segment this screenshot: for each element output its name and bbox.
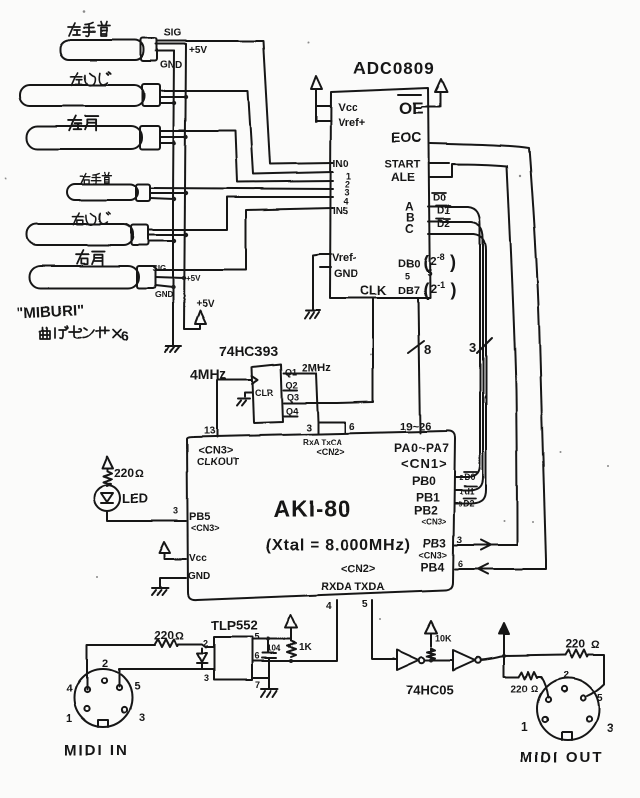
svg-text:2: 2 — [563, 670, 569, 681]
svg-text:74HC05: 74HC05 — [406, 682, 454, 697]
svg-text:Ω: Ω — [135, 468, 144, 480]
svg-text:SIG: SIG — [152, 264, 166, 273]
svg-text:TLP552: TLP552 — [211, 618, 257, 633]
svg-text:1: 1 — [521, 720, 528, 734]
svg-text:3: 3 — [139, 712, 145, 724]
svg-text:DB0: DB0 — [398, 258, 420, 270]
svg-text:3: 3 — [173, 506, 178, 516]
svg-text:CLK: CLK — [360, 283, 387, 298]
svg-text:7: 7 — [255, 680, 260, 690]
svg-text:19~26: 19~26 — [400, 421, 431, 433]
svg-text:Vcc: Vcc — [338, 102, 358, 114]
svg-text:2: 2 — [459, 475, 463, 482]
svg-text:D0: D0 — [464, 472, 476, 482]
svg-text:5: 5 — [597, 693, 603, 704]
svg-text:4: 4 — [66, 683, 73, 695]
svg-text:<CN3>: <CN3> — [198, 445, 233, 457]
svg-text:220: 220 — [154, 628, 174, 642]
svg-text:START: START — [384, 158, 420, 170]
svg-text:PB3: PB3 — [423, 536, 447, 550]
svg-text:Q1: Q1 — [285, 367, 297, 377]
svg-text:4MHz: 4MHz — [190, 366, 227, 382]
svg-text:4: 4 — [344, 196, 349, 206]
svg-text:220: 220 — [565, 637, 585, 651]
svg-text:(Xtal = 8.000MHz): (Xtal = 8.000MHz) — [266, 537, 411, 554]
svg-text:Vcc: Vcc — [189, 553, 207, 564]
svg-text:104: 104 — [267, 644, 281, 653]
svg-text:Vref+: Vref+ — [338, 117, 365, 129]
svg-text:PB5: PB5 — [189, 511, 210, 523]
svg-text:<CN1>: <CN1> — [401, 456, 447, 471]
svg-text:MIDI IN: MIDI IN — [64, 742, 129, 759]
svg-text:13: 13 — [204, 426, 216, 437]
svg-text:5: 5 — [362, 599, 368, 610]
svg-text:Ω: Ω — [175, 630, 184, 642]
svg-text:PA0~PA7: PA0~PA7 — [394, 441, 449, 455]
svg-text:<CN2>: <CN2> — [316, 447, 345, 457]
svg-text:SIG: SIG — [164, 28, 181, 39]
svg-text:5: 5 — [134, 681, 140, 693]
svg-text:4: 4 — [326, 601, 332, 612]
svg-text:PB4: PB4 — [421, 560, 445, 574]
svg-text:CLKOUT: CLKOUT — [197, 457, 239, 468]
svg-text:Vref-: Vref- — [332, 252, 357, 264]
svg-text:3: 3 — [469, 340, 476, 355]
svg-text:GND: GND — [334, 268, 359, 280]
svg-text:C: C — [405, 222, 414, 236]
svg-text:PB0: PB0 — [412, 474, 436, 488]
svg-text:+5V: +5V — [189, 45, 207, 56]
svg-text:<CN3>: <CN3> — [191, 523, 220, 533]
svg-text:IN5: IN5 — [333, 206, 349, 217]
svg-text:d1: d1 — [464, 486, 475, 496]
svg-text:AKI-80: AKI-80 — [273, 496, 352, 522]
svg-text:Ω: Ω — [591, 639, 600, 651]
svg-text:3: 3 — [306, 423, 312, 434]
svg-text:GND: GND — [188, 571, 210, 582]
svg-text:220: 220 — [114, 466, 134, 480]
svg-text:1: 1 — [66, 713, 72, 725]
svg-text:): ) — [450, 280, 456, 300]
svg-text:3: 3 — [607, 721, 614, 735]
svg-text:10K: 10K — [435, 633, 452, 643]
svg-text:PB1: PB1 — [416, 490, 440, 504]
svg-text:2MHz: 2MHz — [302, 362, 331, 374]
svg-text:OE: OE — [399, 99, 424, 118]
svg-text:RXDA TXDA: RXDA TXDA — [321, 581, 385, 593]
svg-text:D0: D0 — [433, 193, 446, 204]
svg-text:ALE: ALE — [391, 170, 415, 184]
svg-text:6: 6 — [349, 422, 355, 433]
svg-text:<CN3>: <CN3> — [419, 550, 448, 560]
svg-text:Ω: Ω — [531, 684, 538, 694]
svg-text:6: 6 — [458, 559, 463, 569]
svg-text:"MIBURI": "MIBURI" — [16, 301, 84, 322]
svg-text:GND: GND — [155, 290, 173, 299]
svg-text:74HC393: 74HC393 — [219, 343, 278, 359]
svg-text:D2: D2 — [437, 219, 450, 230]
svg-text:GND: GND — [160, 60, 182, 71]
svg-text:9: 9 — [458, 501, 462, 508]
svg-text:Q3: Q3 — [287, 392, 299, 402]
svg-text:(: ( — [423, 280, 429, 300]
svg-text:5: 5 — [254, 632, 259, 642]
svg-text:DB7: DB7 — [398, 285, 420, 297]
svg-text:<CN2>: <CN2> — [341, 563, 376, 575]
svg-text:6: 6 — [121, 328, 129, 344]
svg-text:PB2: PB2 — [414, 503, 438, 517]
svg-text:1: 1 — [459, 489, 463, 496]
svg-text:): ) — [450, 252, 456, 272]
svg-text:D2: D2 — [463, 498, 475, 508]
svg-text:+5V: +5V — [186, 274, 201, 283]
svg-text:IN0: IN0 — [333, 159, 349, 170]
svg-text:3: 3 — [204, 673, 209, 683]
svg-text:5: 5 — [427, 268, 432, 278]
svg-text:CLR: CLR — [255, 388, 274, 398]
svg-text:3: 3 — [457, 535, 462, 545]
svg-text:220: 220 — [511, 684, 528, 695]
svg-text:RxA TxCA: RxA TxCA — [303, 438, 342, 447]
svg-text:2: 2 — [102, 658, 108, 670]
svg-text:+5V: +5V — [196, 299, 214, 310]
svg-text:5: 5 — [405, 271, 410, 281]
svg-text:EOC: EOC — [391, 129, 421, 145]
svg-text:1K: 1K — [299, 642, 313, 653]
svg-text:2: 2 — [203, 638, 208, 648]
svg-text:8: 8 — [424, 342, 431, 357]
svg-text:LED: LED — [122, 491, 148, 506]
svg-text:<CN3>: <CN3> — [421, 517, 447, 526]
svg-text:6: 6 — [254, 651, 259, 661]
svg-text:ADC0809: ADC0809 — [353, 59, 435, 78]
svg-text:MIDI OUT: MIDI OUT — [520, 749, 604, 766]
svg-text:Q4: Q4 — [286, 406, 298, 416]
svg-text:Q2: Q2 — [286, 380, 298, 390]
